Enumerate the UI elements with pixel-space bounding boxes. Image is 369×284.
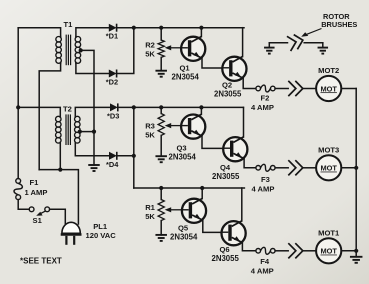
resistor (potentiometer) R2 5K: [158, 40, 164, 57]
connector: brush contacts to MOT3: [288, 160, 296, 175]
node: D3/D4 junction: [132, 105, 136, 109]
wire: motor to return rail: [341, 88, 356, 90]
node: MOT3 return: [354, 166, 358, 170]
wire: left AC vertical: [17, 28, 19, 179]
node: T1 center tap: [79, 48, 83, 52]
switch S1: [29, 207, 34, 212]
wire: brush right ground stem: [322, 43, 324, 48]
fuse F2: [256, 86, 261, 91]
svg-text:2N3054: 2N3054: [170, 232, 198, 241]
node: Q5 collector on rail: [200, 186, 204, 190]
svg-text:Q4: Q4: [220, 163, 231, 172]
svg-text:2N3054: 2N3054: [172, 72, 200, 81]
svg-text:2N3054: 2N3054: [169, 152, 197, 161]
wire: T1 primary bottom down-left: [39, 63, 60, 169]
svg-text:Q1: Q1: [180, 63, 191, 72]
svg-text:F4: F4: [260, 257, 270, 266]
svg-text:4 AMP: 4 AMP: [251, 266, 274, 275]
svg-text:T1: T1: [64, 20, 74, 29]
wire: Q3 collector: [200, 107, 202, 114]
wire: R1 bottom to ground: [160, 221, 162, 235]
wire: center taps to ground: [81, 50, 94, 165]
svg-text:2N3055: 2N3055: [212, 254, 240, 263]
svg-text:5K: 5K: [145, 130, 155, 139]
wire: D2 output up to rail 1: [117, 28, 134, 74]
wire: motor to return rail: [341, 250, 356, 252]
ground: below R3: [155, 155, 167, 157]
wire: fuse to connector: [275, 250, 288, 252]
svg-text:MOT1: MOT1: [318, 228, 340, 237]
wire: +V rail 2: [118, 106, 244, 108]
fuse F1: [16, 179, 21, 184]
motor MOT2: [316, 76, 341, 101]
diode D4: [109, 152, 117, 160]
motor MOT1: [316, 238, 341, 263]
node: R2 top on rail: [159, 26, 163, 30]
wire: Q6 emitter to fuse: [242, 243, 255, 251]
svg-text:PL1: PL1: [93, 222, 108, 231]
svg-text:BRUSHES: BRUSHES: [321, 20, 357, 29]
wire: Q1 collector: [200, 28, 202, 37]
transistor Q1 2N3054: [181, 37, 205, 61]
svg-text:*D2: *D2: [106, 78, 118, 87]
node: R1 top on rail: [159, 186, 163, 190]
transformer T1: [56, 36, 62, 42]
svg-text:Q3: Q3: [177, 143, 187, 152]
wire: rail down to Q2 collector: [242, 28, 244, 57]
wire: +V rail 3: [134, 187, 245, 189]
wire: Q5 emitter to Q6 base: [203, 220, 222, 232]
fuse F3: [256, 166, 261, 171]
svg-text:F3: F3: [261, 175, 270, 184]
wire: D4 to junction: [117, 155, 134, 157]
wire: left vertical to T2 primary top: [18, 107, 60, 116]
transistor Q6 2N3055: [222, 221, 246, 245]
svg-text:Q5: Q5: [178, 223, 189, 232]
diode D1: [109, 24, 117, 32]
wire: +V rail 1: [117, 27, 244, 29]
wire: brush left ground stem: [268, 43, 270, 48]
wire: fuse to connector: [275, 88, 288, 90]
svg-text:120 VAC: 120 VAC: [86, 231, 117, 240]
diode D3: [110, 103, 118, 111]
wire: Q1 emitter to Q2 base: [202, 58, 222, 68]
svg-text:1 AMP: 1 AMP: [25, 188, 48, 197]
svg-text:2N3055: 2N3055: [214, 89, 242, 98]
connector: brush contacts to MOT2: [288, 81, 296, 96]
ground: brushes right: [318, 47, 329, 49]
node: MOT1 return: [354, 249, 358, 253]
svg-text:MOT3: MOT3: [318, 145, 339, 154]
svg-text:F2: F2: [261, 93, 270, 102]
svg-text:*D3: *D3: [107, 111, 119, 120]
svg-text:Q2: Q2: [222, 80, 232, 89]
wire: rail down to Q6 collector: [241, 188, 243, 221]
svg-text:T2: T2: [63, 104, 72, 113]
svg-text:5K: 5K: [145, 49, 155, 58]
resistor (potentiometer) R1 5K: [158, 200, 164, 221]
wire: Q5 collector: [201, 188, 203, 199]
ground: brushes left: [264, 47, 275, 49]
transistor Q5 2N3054: [182, 199, 206, 223]
wire: S1 to plug: [50, 209, 66, 223]
node: primary bottoms join: [58, 168, 62, 172]
svg-text:MOT2: MOT2: [318, 66, 339, 75]
wire: T2 secondary top to D3: [75, 107, 110, 116]
svg-text:*SEE TEXT: *SEE TEXT: [20, 257, 62, 266]
svg-text:*D1: *D1: [106, 32, 118, 41]
wire: T1 secondary bottom to D2: [76, 63, 109, 73]
node: tap joins ground wire: [92, 130, 96, 134]
node: R3 top on rail: [159, 105, 163, 109]
wire: T1 secondary top to D1: [76, 28, 109, 37]
ground: below R1: [155, 234, 167, 236]
wire: connector to motor: [303, 167, 316, 169]
wire: F1 to S1: [18, 200, 29, 210]
wire: T2 secondary bottom to D4: [75, 143, 109, 156]
wire: primary common to plug: [39, 170, 78, 224]
wire: R2 bottom to ground: [160, 57, 162, 70]
svg-text:4 AMP: 4 AMP: [251, 103, 274, 112]
plug PL1 120 VAC: [62, 222, 80, 233]
svg-text:S1: S1: [33, 216, 43, 225]
wire: D3/D4 join vertical feeding rail 3: [133, 107, 135, 188]
svg-text:2N3055: 2N3055: [212, 172, 240, 181]
wire: return to ground: [355, 251, 357, 257]
fuse F4: [256, 249, 261, 254]
wire: T2 primary bottom: [59, 143, 61, 170]
svg-text:*D4: *D4: [106, 160, 119, 169]
node: Q3 collector on rail: [199, 105, 203, 109]
wire: connector to motor: [303, 88, 316, 90]
transformer T2: [56, 116, 62, 122]
transistor Q2 2N3055: [222, 57, 246, 81]
svg-text:MOT: MOT: [320, 164, 337, 173]
svg-text:F1: F1: [30, 178, 40, 187]
wire: connector to motor: [303, 250, 316, 252]
transistor Q4 2N3055: [223, 137, 247, 161]
ground: below R2: [155, 70, 167, 72]
svg-text:4 AMP: 4 AMP: [252, 184, 275, 193]
wire: common return vertical: [355, 89, 357, 252]
node: Q1 collector on rail: [199, 26, 203, 30]
wire: fuse to connector: [275, 167, 288, 169]
node: D1/D2 junction: [132, 26, 136, 30]
wire: Q4 emitter to fuse: [244, 159, 256, 168]
wire: motor to return rail: [341, 167, 356, 169]
rotor brushes connector: [269, 42, 287, 44]
resistor (potentiometer) R3 5K: [158, 114, 164, 136]
transistor Q3 2N3054: [181, 115, 205, 139]
wire: rail down to Q4 collector: [243, 107, 245, 137]
wire: T2 tap to ground line: [80, 131, 94, 133]
svg-text:Q6: Q6: [220, 245, 230, 254]
wire: Q3 emitter to Q4 base: [202, 136, 223, 148]
node: D4/rail junction: [132, 154, 136, 158]
svg-text:MOT: MOT: [320, 247, 337, 256]
node: T2 center tap: [78, 130, 82, 134]
connector: brush contacts to MOT1: [288, 243, 296, 258]
motor MOT3: [316, 155, 341, 180]
wire: R3 bottom to ground: [160, 135, 162, 156]
ground: motor return: [350, 256, 363, 258]
diode D2: [109, 70, 117, 78]
svg-text:MOT: MOT: [320, 84, 337, 93]
node: T2 primary tap on left vertical: [16, 105, 20, 109]
wire: rail to T1 primary top: [18, 28, 60, 37]
ground: center taps: [88, 164, 100, 166]
wire: Q2 emitter to fuse: [243, 78, 256, 88]
svg-text:5K: 5K: [145, 212, 155, 221]
